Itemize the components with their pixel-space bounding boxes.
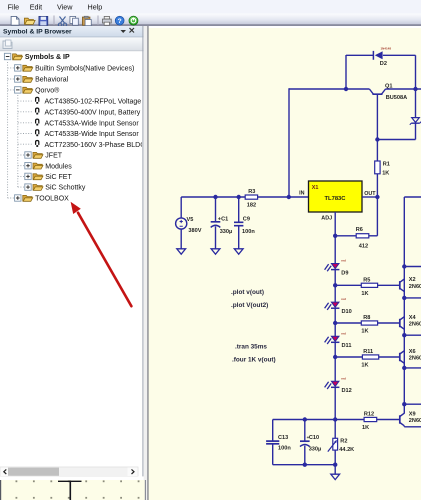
svg-text:V5: V5 [187,217,194,223]
svg-text:R2: R2 [340,438,347,444]
svg-text:Help: Help [88,2,103,11]
svg-text:C13: C13 [278,435,288,441]
svg-text:X4: X4 [409,315,417,321]
svg-text:Modules: Modules [45,163,72,170]
svg-text:Symbols & IP: Symbols & IP [25,54,70,61]
svg-text:2N60: 2N60 [409,356,421,362]
svg-text:R1: R1 [383,161,390,167]
svg-text:.plot v(out): .plot v(out) [231,289,264,296]
svg-text:C9: C9 [243,216,250,222]
svg-text:330µ: 330µ [220,229,233,235]
svg-text:2N60: 2N60 [409,322,421,328]
svg-text:D2: D2 [380,61,387,67]
svg-text:Qorvo®: Qorvo® [35,87,60,95]
svg-text:ADJ: ADJ [321,215,332,221]
svg-text:?: ? [118,18,122,25]
svg-text:R12: R12 [364,411,374,417]
svg-text:Behavioral: Behavioral [35,77,69,84]
svg-text:JFET: JFET [45,153,62,160]
svg-text:R11: R11 [363,349,373,355]
svg-text:ACT72350-160V 3-Phase BLDC: ACT72350-160V 3-Phase BLDC [45,142,146,149]
svg-text:182: 182 [247,203,256,209]
svg-text:BU508A: BU508A [386,95,407,101]
svg-text:red: red [341,376,346,380]
svg-text:100n: 100n [242,229,255,235]
svg-text:1N4148: 1N4148 [381,46,392,50]
svg-text:X2: X2 [409,277,416,283]
svg-text:X1: X1 [312,185,319,191]
svg-text:.four 1K v(out): .four 1K v(out) [232,357,276,364]
svg-text:TL783C: TL783C [325,196,347,202]
svg-text:R3: R3 [248,189,255,195]
svg-text:X6: X6 [409,349,416,355]
svg-text:red: red [341,297,346,301]
svg-text:File: File [8,2,20,11]
svg-text:TOOLBOX: TOOLBOX [35,196,69,203]
svg-text:Edit: Edit [30,2,42,11]
svg-text:ACT4533B-Wide Input Sensor: ACT4533B-Wide Input Sensor [45,131,140,138]
svg-text:1K: 1K [361,329,368,335]
svg-text:red: red [341,331,346,335]
svg-text:OUT: OUT [364,191,376,197]
svg-text:.plot V(out2): .plot V(out2) [231,302,268,309]
svg-text:D9: D9 [341,270,348,276]
svg-text:1K: 1K [361,363,368,369]
svg-text:ACT43850-102-RFPoL Voltage: ACT43850-102-RFPoL Voltage [45,99,142,106]
svg-text:380V: 380V [188,228,201,234]
svg-text:R6: R6 [356,227,363,233]
svg-text:.tran 35ms: .tran 35ms [235,343,267,350]
svg-text:ACT43950-400V Input, Battery: ACT43950-400V Input, Battery [45,109,141,116]
svg-text:IN: IN [299,191,304,197]
svg-text:View: View [57,2,73,11]
svg-text:1K: 1K [361,291,368,297]
svg-text:Q1: Q1 [385,84,392,90]
svg-text:X9: X9 [409,411,416,417]
svg-text:D11: D11 [342,343,352,349]
svg-text:44.2K: 44.2K [339,447,354,453]
svg-text:2N60: 2N60 [409,284,421,290]
svg-text:SiC FET: SiC FET [45,174,72,181]
svg-text:1K: 1K [382,170,389,176]
svg-text:2N60: 2N60 [409,418,421,424]
svg-text:+C1: +C1 [218,216,228,222]
svg-text:ACT4533A-Wide Input Sensor: ACT4533A-Wide Input Sensor [45,120,140,127]
svg-text:C10: C10 [309,435,319,441]
svg-text:330µ: 330µ [309,446,322,452]
svg-text:Builtin Symbols(Native Devices: Builtin Symbols(Native Devices) [35,66,134,73]
svg-text:red: red [341,259,346,263]
svg-text:100n: 100n [278,445,291,451]
svg-text:D10: D10 [342,309,352,315]
svg-text:D12: D12 [342,388,352,394]
svg-text:R8: R8 [363,315,370,321]
svg-text:SiC Schottky: SiC Schottky [45,185,86,192]
svg-text:412: 412 [359,244,368,250]
svg-text:Symbol & IP Browser: Symbol & IP Browser [3,29,72,36]
svg-text:1K: 1K [362,425,369,431]
svg-text:R5: R5 [363,277,370,283]
